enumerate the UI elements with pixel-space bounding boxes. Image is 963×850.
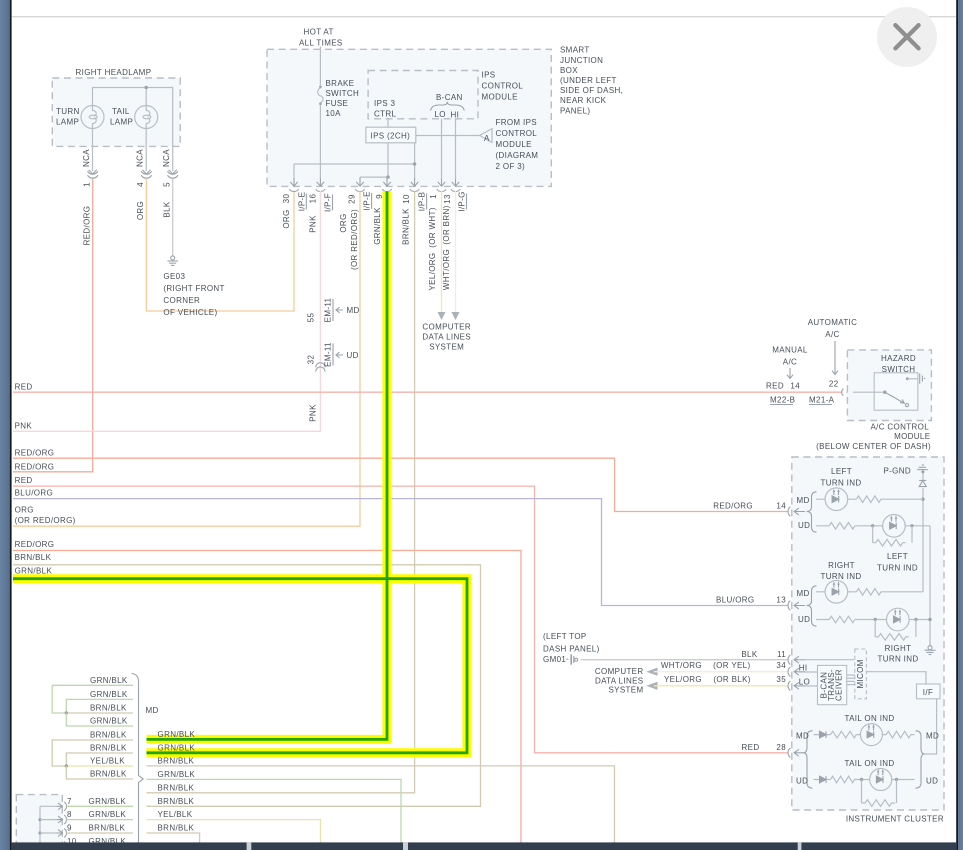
svg-text:SYSTEM: SYSTEM [429, 342, 464, 351]
tail lamp [135, 106, 158, 129]
svg-text:SMART: SMART [560, 46, 590, 55]
first column row1 GRN/BLK [52, 685, 133, 713]
left brace pin28 [804, 731, 813, 789]
svg-text:YEL/ORG: YEL/ORG [428, 252, 437, 290]
ground bus2 [924, 646, 935, 655]
svg-text:JUNCTION: JUNCTION [560, 56, 603, 65]
LO HI wires [442, 119, 456, 179]
svg-text:7: 7 [67, 797, 72, 806]
node group A [65, 711, 68, 714]
connector pin 1 [88, 170, 98, 179]
arrow automatic A/C to pin 22 [832, 341, 838, 375]
svg-text:32: 32 [307, 355, 316, 365]
svg-text:13: 13 [443, 194, 452, 204]
svg-text:10A: 10A [326, 109, 342, 118]
wire ORG pin4 to SJB pin30 [146, 179, 294, 311]
svg-text:RIGHT HEADLAMP: RIGHT HEADLAMP [76, 68, 152, 77]
svg-text:(OR RED/ORG): (OR RED/ORG) [350, 209, 359, 270]
svg-text:WHT/ORG: WHT/ORG [661, 661, 702, 670]
svg-text:A/C: A/C [783, 358, 797, 367]
svg-text:UD: UD [347, 351, 359, 360]
svg-text:GE03: GE03 [163, 272, 185, 281]
bus lines B-CAN to MICOM [847, 675, 855, 685]
svg-text:RIGHT: RIGHT [828, 561, 855, 570]
triangle A [480, 129, 492, 143]
green core left [13, 579, 467, 753]
wire RED line1 to A/C [13, 391, 842, 393]
svg-text:MD: MD [797, 496, 810, 505]
pin 9 [40, 832, 58, 834]
svg-text:10: 10 [402, 194, 411, 204]
MD1 row: LED + resistor [816, 498, 856, 500]
IPS (2CH) box [366, 127, 416, 143]
svg-text:ORG: ORG [136, 201, 145, 220]
svg-text:SYSTEM: SYSTEM [609, 686, 644, 695]
svg-text:35: 35 [776, 675, 786, 684]
svg-text:UD: UD [926, 777, 938, 786]
first column row8 BRN/BLK [66, 766, 133, 779]
svg-text:14: 14 [776, 502, 786, 511]
smart junction box [267, 49, 551, 186]
connector pin 14 [788, 507, 805, 517]
svg-text:(BELOW CENTER OF DASH): (BELOW CENTER OF DASH) [816, 442, 931, 451]
svg-text:BRN/BLK: BRN/BLK [158, 797, 195, 806]
svg-text:P-GND: P-GND [883, 467, 911, 476]
brace pin13 [807, 586, 817, 626]
wire BLK pin5 to ground [172, 179, 174, 256]
connector pin 13 [788, 601, 805, 611]
first column row5 BRN/BLK [52, 740, 133, 766]
svg-text:A: A [484, 134, 490, 143]
first column row6 BRN/BLK [66, 753, 133, 766]
svg-text:MD: MD [796, 732, 809, 741]
connector pin box bottom left [16, 795, 62, 850]
svg-text:30: 30 [282, 194, 291, 204]
svg-text:TAIL: TAIL [112, 107, 130, 116]
svg-text:GM01: GM01 [543, 655, 566, 664]
svg-text:1: 1 [82, 182, 91, 187]
svg-text:ORG: ORG [15, 505, 34, 514]
diode to P-GND [922, 473, 924, 481]
svg-text:MODULE: MODULE [894, 432, 930, 441]
svg-text:A/C CONTROL: A/C CONTROL [870, 423, 929, 432]
connector pin 5 [168, 170, 178, 179]
hazard switch contacts [853, 391, 885, 393]
svg-text:28: 28 [776, 743, 786, 752]
svg-text:GRN/BLK: GRN/BLK [158, 770, 196, 779]
svg-text:SIDE OF DASH,: SIDE OF DASH, [560, 86, 623, 95]
svg-text:BRN/BLK: BRN/BLK [90, 704, 127, 713]
node group B [65, 764, 68, 767]
svg-text:BLK: BLK [162, 201, 171, 217]
ground GE03 [167, 256, 178, 266]
svg-text:OF VEHICLE): OF VEHICLE) [163, 308, 217, 317]
svg-text:CONTROL: CONTROL [482, 82, 524, 91]
second column row3 BRN/BLK to bottom [147, 766, 615, 843]
svg-text:SWITCH: SWITCH [326, 89, 360, 98]
svg-text:I/F: I/F [923, 688, 933, 697]
svg-text:AUTOMATIC: AUTOMATIC [808, 318, 858, 327]
UD1 row [816, 526, 930, 646]
wire WHT/ORG pin13 [455, 191, 457, 312]
pin 8 [40, 819, 58, 821]
pin 10 [40, 845, 58, 847]
svg-text:NCA: NCA [82, 149, 91, 167]
svg-text:BRN/BLK: BRN/BLK [15, 553, 52, 562]
svg-text:MD: MD [347, 306, 360, 315]
svg-text:NCA: NCA [162, 149, 171, 167]
svg-text:IPS 3: IPS 3 [374, 99, 396, 108]
wire ORG pin29 to left edge [13, 191, 360, 526]
highlighted wire from SJB pin9 [147, 191, 388, 739]
svg-text:NEAR KICK: NEAR KICK [560, 96, 607, 105]
second column row8 BRN/BLK to bottom [147, 833, 200, 843]
big bundle brace MD [132, 674, 144, 850]
hazard switch box [847, 350, 931, 421]
svg-text:GRN/BLK: GRN/BLK [89, 797, 127, 806]
svg-text:I/P-F: I/P-F [324, 193, 333, 212]
GM01 ground symbol [566, 654, 577, 664]
wire MICOM to I/F [866, 672, 926, 684]
svg-text:(DIAGRAM: (DIAGRAM [496, 151, 539, 160]
svg-text:A/C: A/C [825, 330, 839, 339]
svg-text:BLU/ORG: BLU/ORG [15, 489, 53, 498]
svg-text:CONTROL: CONTROL [496, 129, 538, 138]
I/F box [917, 684, 941, 699]
close button [877, 7, 937, 67]
svg-text:11: 11 [777, 650, 786, 659]
svg-text:HAZARD: HAZARD [881, 354, 916, 363]
svg-text:COMPUTER: COMPUTER [595, 667, 644, 676]
svg-text:INSTRUMENT CLUSTER: INSTRUMENT CLUSTER [846, 815, 944, 824]
svg-text:I/P-B: I/P-B [418, 192, 427, 212]
parallel resistor UD2 [875, 620, 916, 641]
svg-text:TAIL ON IND: TAIL ON IND [844, 759, 894, 768]
wire RED/ORG pin1 to left edge [13, 179, 93, 472]
svg-text:BRN/BLK: BRN/BLK [402, 208, 411, 245]
svg-text:(LEFT TOP: (LEFT TOP [543, 632, 587, 641]
wire internal headlamp [93, 88, 173, 172]
second column row4 GRN/BLK to bottom [147, 779, 402, 843]
right headlamp box [52, 78, 180, 146]
right brace MD/UD [916, 731, 925, 789]
svg-text:RED: RED [15, 383, 33, 392]
svg-text:LEFT: LEFT [887, 552, 908, 561]
svg-text:2 OF 3): 2 OF 3) [496, 162, 526, 171]
svg-text:29: 29 [348, 194, 357, 204]
svg-text:PNK: PNK [309, 404, 318, 422]
svg-text:LO: LO [799, 678, 810, 687]
B-CAN transceiver box [818, 665, 847, 704]
wire YEL/ORG pin1 [441, 191, 443, 312]
svg-text:(OR BRN): (OR BRN) [442, 205, 451, 244]
svg-text:GRN/BLK: GRN/BLK [158, 744, 196, 753]
svg-text:9: 9 [67, 824, 72, 833]
second column row7 YEL/BLK to bottom [147, 820, 321, 843]
wire RED/ORG line3 to cluster pin14 [13, 458, 788, 511]
svg-text:HI: HI [451, 111, 460, 120]
svg-text:ORG: ORG [282, 209, 291, 228]
svg-text:(OR BLK): (OR BLK) [713, 675, 750, 684]
svg-text:BLK: BLK [741, 650, 757, 659]
svg-text:GRN/BLK: GRN/BLK [89, 810, 127, 819]
svg-text:RED/ORG: RED/ORG [15, 462, 55, 471]
svg-text:GRN/BLK: GRN/BLK [90, 690, 128, 699]
svg-text:I/P-E: I/P-E [297, 192, 306, 212]
svg-text:BRN/BLK: BRN/BLK [90, 731, 127, 740]
svg-text:TAIL ON IND: TAIL ON IND [844, 714, 894, 723]
svg-text:55: 55 [307, 313, 316, 323]
svg-text:TURN IND: TURN IND [877, 654, 918, 663]
first column row4 GRN/BLK [66, 713, 133, 726]
svg-text:(UNDER LEFT: (UNDER LEFT [560, 76, 617, 85]
first column row3 BRN/BLK [66, 712, 133, 714]
wire I/F to right brace [924, 699, 937, 754]
first column row7 YEL/BLK [66, 765, 133, 767]
brake switch fuse [319, 47, 321, 179]
svg-text:MODULE: MODULE [496, 140, 532, 149]
wire to triangle A [416, 135, 480, 137]
svg-text:M22-B: M22-B [770, 396, 795, 405]
svg-text:RED: RED [766, 382, 784, 391]
svg-text:BRN/BLK: BRN/BLK [158, 757, 195, 766]
svg-text:RED/ORG: RED/ORG [15, 540, 55, 549]
svg-text:BOX: BOX [560, 66, 578, 75]
svg-text:GRN/BLK: GRN/BLK [90, 676, 128, 685]
svg-text:GRN/BLK: GRN/BLK [158, 730, 196, 739]
svg-text:BLU/ORG: BLU/ORG [716, 596, 754, 605]
svg-text:FROM IPS: FROM IPS [496, 118, 537, 127]
svg-text:LAMP: LAMP [56, 118, 79, 127]
svg-text:UD: UD [798, 615, 810, 624]
svg-text:EM-11: EM-11 [324, 297, 333, 322]
svg-text:YEL/BLK: YEL/BLK [158, 810, 193, 819]
svg-text:RED: RED [15, 476, 33, 485]
UD2 row [816, 619, 930, 621]
first column row2 GRN/BLK [66, 699, 133, 713]
svg-text:16: 16 [309, 194, 318, 204]
svg-text:14: 14 [790, 382, 800, 391]
connector M21-A pin22 [842, 389, 853, 396]
svg-text:TURN IND: TURN IND [820, 572, 861, 581]
svg-text:COMPUTER: COMPUTER [422, 323, 471, 332]
arrow manual A/C to pin 14 [787, 368, 793, 379]
parallel resistor tail [862, 780, 897, 807]
brace pin14 [807, 492, 817, 532]
svg-text:BRN/BLK: BRN/BLK [158, 824, 195, 833]
svg-text:PNK: PNK [15, 421, 33, 430]
wire BLK to pin 11 [581, 659, 788, 661]
svg-text:GRN/BLK: GRN/BLK [373, 207, 382, 245]
svg-text:BRN/BLK: BRN/BLK [90, 770, 127, 779]
wire ips3 ctrl [387, 119, 389, 127]
svg-text:I/P-G: I/P-G [458, 191, 467, 211]
svg-text:RED: RED [742, 743, 760, 752]
svg-text:EM-11: EM-11 [324, 342, 333, 367]
wire BRN/BLK pin10 [147, 191, 415, 793]
svg-text:BRAKE: BRAKE [326, 79, 355, 88]
svg-text:5: 5 [162, 182, 171, 187]
svg-text:YEL/BLK: YEL/BLK [90, 757, 125, 766]
svg-text:CORNER: CORNER [163, 296, 200, 305]
svg-text:(OR RED/ORG): (OR RED/ORG) [15, 516, 76, 525]
svg-text:BRN/BLK: BRN/BLK [89, 824, 126, 833]
svg-text:DATA LINES: DATA LINES [595, 676, 644, 685]
svg-text:BRN/BLK: BRN/BLK [90, 744, 127, 753]
svg-text:ALL TIMES: ALL TIMES [299, 39, 343, 48]
node junction [145, 86, 148, 89]
svg-text:MICOM: MICOM [856, 659, 865, 688]
svg-text:MODULE: MODULE [482, 93, 518, 102]
svg-text:UD: UD [796, 777, 808, 786]
wire RED/ORG line8 down to bottom [13, 551, 521, 850]
inline connector on PNK [316, 363, 325, 372]
svg-text:RIGHT: RIGHT [885, 644, 912, 653]
svg-text:UD: UD [798, 521, 810, 530]
svg-text:HI: HI [799, 664, 808, 673]
IPS control module box [368, 71, 478, 119]
svg-text:RED/ORG: RED/ORG [82, 206, 91, 246]
bus [39, 806, 41, 846]
green core pin9 [147, 191, 388, 739]
svg-text:CTRL: CTRL [374, 110, 396, 119]
svg-text:MD: MD [146, 706, 159, 715]
wire WHT/ORG (OR YEL) pin 34 [646, 668, 657, 676]
svg-text:RED/ORG: RED/ORG [713, 502, 753, 511]
svg-text:IPS: IPS [482, 71, 496, 80]
svg-text:TURN IND: TURN IND [877, 563, 918, 572]
svg-text:PNK: PNK [309, 215, 318, 233]
highlighted wire left edge to cluster loop [13, 579, 467, 753]
svg-text:MANUAL: MANUAL [772, 346, 808, 355]
svg-text:4: 4 [136, 182, 145, 187]
svg-text:PANEL): PANEL) [560, 106, 590, 115]
wire PNK pin16 to left edge [13, 191, 320, 431]
svg-text:RED/ORG: RED/ORG [15, 449, 55, 458]
SJB exit pins [289, 178, 460, 192]
MICOM dashed box [855, 649, 867, 699]
svg-text:TURN IND: TURN IND [820, 478, 861, 487]
svg-text:LO: LO [435, 110, 446, 119]
svg-text:GRN/BLK: GRN/BLK [15, 566, 53, 575]
svg-text:GRN/BLK: GRN/BLK [90, 717, 128, 726]
svg-text:WHT/ORG: WHT/ORG [442, 249, 451, 290]
svg-text:1: 1 [429, 194, 438, 199]
svg-text:NCA: NCA [136, 149, 145, 167]
svg-text:HOT AT: HOT AT [304, 28, 334, 37]
instrument cluster box [792, 457, 944, 810]
svg-text:(RIGHT FRONT: (RIGHT FRONT [163, 284, 224, 293]
svg-text:DATA LINES: DATA LINES [422, 332, 471, 341]
brace B-CAN [431, 102, 465, 111]
svg-text:M21-A: M21-A [809, 396, 835, 405]
svg-text:MD: MD [797, 589, 810, 598]
svg-text:LEFT: LEFT [831, 467, 852, 476]
svg-text:8: 8 [67, 810, 72, 819]
wire BLU/ORG line6 to cluster pin13 [13, 499, 788, 606]
svg-text:FUSE: FUSE [326, 99, 349, 108]
svg-text:YEL/ORG: YEL/ORG [664, 675, 702, 684]
wire RED line5 to cluster pin28 [13, 486, 788, 753]
svg-text:CEIVER: CEIVER [835, 669, 844, 701]
parallel resistor UD1 [873, 526, 912, 546]
svg-text:ORG: ORG [339, 213, 348, 232]
svg-text:I/P-E: I/P-E [363, 191, 372, 211]
wire YEL/ORG (OR BLK) pin 35 [646, 682, 657, 690]
svg-text:13: 13 [776, 596, 786, 605]
MD2 row [816, 591, 856, 593]
SJB internal wires [294, 143, 415, 179]
svg-text:22: 22 [829, 380, 839, 389]
svg-text:MD: MD [926, 732, 939, 741]
svg-text:DASH PANEL): DASH PANEL) [543, 645, 600, 654]
connector pin 4 [141, 170, 151, 179]
svg-text:B-CAN: B-CAN [436, 93, 463, 102]
bus1 [922, 488, 924, 592]
turn lamp [81, 106, 104, 129]
svg-text:(OR WHT): (OR WHT) [428, 207, 437, 248]
svg-text:34: 34 [776, 661, 786, 670]
svg-text:IPS (2CH): IPS (2CH) [371, 132, 411, 141]
wire BRN/BLK line9 [13, 565, 481, 807]
connector pin 28 [788, 748, 805, 758]
pin 7 [40, 805, 58, 807]
svg-text:(OR YEL): (OR YEL) [713, 661, 750, 670]
svg-text:LAMP: LAMP [110, 118, 133, 127]
svg-text:9: 9 [375, 194, 384, 199]
svg-text:BRN/BLK: BRN/BLK [158, 783, 195, 792]
svg-text:TURN: TURN [56, 107, 80, 116]
